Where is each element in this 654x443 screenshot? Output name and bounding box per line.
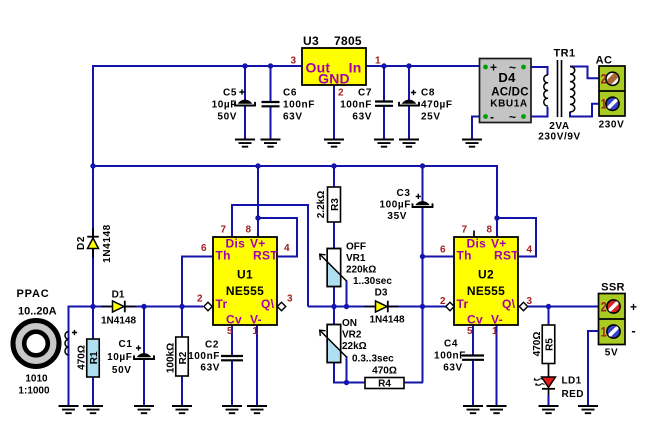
- screw terminal SSR 1: [607, 325, 620, 338]
- resistor R2 100k: [176, 337, 189, 376]
- resistor R5 470R: [542, 325, 555, 364]
- capacitor C8 470uF electrolytic: [402, 100, 417, 104]
- svg-text:U3: U3: [303, 34, 319, 48]
- svg-text:1: 1: [253, 326, 259, 337]
- pin - of D4: [483, 114, 488, 119]
- junction VR2 wiper / R4: [344, 380, 349, 385]
- svg-text:100nF: 100nF: [188, 351, 220, 362]
- svg-text:3: 3: [527, 296, 533, 307]
- svg-text:ON: ON: [342, 318, 357, 329]
- svg-text:1: 1: [601, 96, 607, 112]
- svg-text:AC: AC: [596, 54, 613, 66]
- svg-text:VR2: VR2: [342, 329, 362, 340]
- svg-text:8: 8: [486, 225, 492, 236]
- svg-text:-: -: [631, 323, 635, 338]
- svg-text:6: 6: [440, 244, 446, 255]
- svg-text:C3: C3: [397, 188, 411, 199]
- svg-text:470Ω: 470Ω: [77, 345, 88, 370]
- ground below LED: [539, 406, 559, 413]
- junction U2 ThTr column / trigger wire: [420, 304, 425, 309]
- junction bus / U1 V+ column: [255, 163, 260, 168]
- capacitor C6 100nF: [262, 102, 280, 106]
- svg-text:KBU1A: KBU1A: [490, 99, 527, 110]
- wire +5V rail top-left from corner to U3 Out: [93, 65, 302, 67]
- screw terminal SSR 2: [607, 300, 620, 313]
- svg-text:10µF: 10µF: [107, 352, 132, 363]
- wire C5 drop from +5V: [244, 66, 246, 100]
- svg-text:2: 2: [338, 87, 344, 98]
- light arrows of LED: [535, 379, 545, 386]
- svg-text:5V: 5V: [605, 348, 618, 359]
- inverting pin circle U2 Q: [519, 302, 527, 310]
- svg-text:GND: GND: [318, 70, 350, 86]
- svg-text:25V: 25V: [421, 111, 441, 122]
- svg-text:100nF: 100nF: [340, 99, 372, 110]
- LED LD1 RED: [542, 377, 556, 388]
- svg-text:230V/9V: 230V/9V: [538, 132, 581, 143]
- svg-text:50V: 50V: [217, 111, 237, 122]
- wire C8 drop: [408, 66, 410, 140]
- svg-text:470µF: 470µF: [421, 99, 453, 110]
- transformer TR1 primary coil 230V: [570, 66, 575, 112]
- svg-text:4: 4: [527, 244, 533, 255]
- pin ~ top of D4: [521, 65, 526, 70]
- potentiometer VR2 22k ON: [327, 325, 341, 363]
- junction trigger line / C1: [141, 304, 146, 309]
- svg-text:1010: 1010: [25, 373, 48, 384]
- screw terminal AC 2: [605, 72, 619, 86]
- wire transformer secondary top to bridge: [530, 67, 548, 75]
- wire coil branch down to ground: [68, 306, 70, 407]
- ground below SSR terminal 1: [578, 406, 598, 413]
- capacitor C3 100uF electrolytic: [415, 201, 430, 205]
- svg-text:NE555: NE555: [226, 284, 264, 298]
- svg-text:Th: Th: [457, 249, 472, 263]
- svg-text:5: 5: [467, 326, 473, 337]
- junction bus / left rail: [90, 163, 95, 168]
- junction U1 V+ node: [255, 215, 260, 220]
- junction bus / C3: [420, 163, 425, 168]
- junction trigger line / R2 and Th: [179, 304, 184, 309]
- svg-text:6: 6: [201, 243, 207, 254]
- resistor R3 2.2k: [328, 187, 341, 222]
- diode D1 1N4148: [102, 306, 136, 308]
- svg-text:V-: V-: [491, 313, 503, 327]
- junction U2 V+ node: [494, 215, 499, 220]
- wire main +5V bus y=166: [93, 165, 497, 167]
- svg-text:RED: RED: [562, 389, 584, 400]
- capacitor C2 100nF: [221, 356, 243, 360]
- svg-text:D3: D3: [375, 287, 388, 298]
- ground below U3 GND pin: [324, 140, 344, 147]
- svg-text:3: 3: [290, 56, 296, 67]
- svg-text:2: 2: [440, 296, 446, 307]
- timer U2 NE555: [454, 237, 518, 325]
- wire C5 to ground: [244, 107, 246, 141]
- svg-text:D2: D2: [76, 236, 87, 250]
- svg-text:63V: 63V: [200, 363, 220, 374]
- svg-text:0.3..3sec: 0.3..3sec: [352, 354, 394, 365]
- svg-text:Tr: Tr: [216, 297, 228, 311]
- capacitor C7 100nF: [375, 102, 393, 106]
- wire U2 Q out to SSR terminal 2: [526, 306, 599, 308]
- svg-text:AC/DC: AC/DC: [491, 86, 528, 98]
- svg-text:2: 2: [601, 71, 607, 87]
- wire R5 to LED: [548, 364, 550, 378]
- svg-text:R3: R3: [330, 198, 341, 211]
- svg-text:1N4148: 1N4148: [101, 316, 136, 327]
- bridge rectifier D4 KBU1A: [480, 59, 532, 123]
- wire U1 V- to ground: [256, 325, 258, 406]
- svg-text:1..30sec: 1..30sec: [353, 276, 392, 287]
- svg-text:63V: 63V: [443, 362, 463, 373]
- inverting pin circle U1 Tr: [204, 302, 212, 310]
- junction +5V / C5: [242, 63, 247, 68]
- svg-text:C4: C4: [444, 338, 458, 349]
- inverting pin circle U2 Tr: [446, 302, 454, 310]
- wire transformer primary bottom to AC terminal 1: [570, 104, 599, 117]
- inverting pin circle U1 Q: [277, 302, 285, 310]
- junction Q line / R5: [546, 304, 551, 309]
- svg-text:SSR: SSR: [601, 282, 625, 294]
- svg-text:U2: U2: [478, 268, 494, 282]
- svg-text:V-: V-: [250, 313, 262, 327]
- svg-text:D4: D4: [498, 70, 516, 85]
- svg-text:3: 3: [287, 294, 293, 305]
- svg-text:TR1: TR1: [554, 48, 576, 60]
- svg-text:63V: 63V: [352, 111, 372, 122]
- svg-text:100kΩ: 100kΩ: [166, 343, 177, 373]
- svg-text:VR1: VR1: [346, 253, 366, 264]
- svg-text:Q\: Q\: [261, 297, 275, 311]
- svg-text:8: 8: [245, 225, 251, 236]
- wire R2 column to ground: [181, 306, 183, 406]
- svg-text:C8: C8: [421, 87, 435, 98]
- svg-text:7: 7: [220, 225, 226, 236]
- diode D3 1N4148: [365, 306, 399, 308]
- svg-text:1: 1: [375, 56, 381, 67]
- wire U2 Cv through C4 to ground: [472, 323, 474, 406]
- svg-text:+: +: [490, 61, 497, 75]
- svg-text:2.2kΩ: 2.2kΩ: [316, 191, 327, 218]
- ground below C4: [463, 406, 483, 413]
- svg-text:1:1000: 1:1000: [18, 385, 50, 396]
- svg-text:220kΩ: 220kΩ: [346, 265, 376, 276]
- wire U1 V+ drop from bus: [257, 166, 259, 237]
- svg-text:7: 7: [461, 225, 467, 236]
- wire U3 In to bridge D4 +: [366, 65, 480, 67]
- wire SSR terminal 1 to ground: [588, 331, 599, 406]
- wire U2 V- to ground: [496, 323, 498, 406]
- svg-text:RST: RST: [494, 249, 519, 263]
- ground below bridge D4: [462, 140, 482, 147]
- wire U2 V+ drop from bus: [496, 165, 498, 237]
- svg-text:~: ~: [509, 110, 516, 124]
- timer U1 NE555: [213, 237, 277, 325]
- pin + of D4: [483, 65, 488, 70]
- svg-text:2: 2: [601, 299, 607, 315]
- svg-text:Cv: Cv: [226, 313, 242, 327]
- junction +5V / C6: [268, 63, 273, 68]
- ground below pickup coil: [59, 406, 79, 413]
- capacitor C1 10uF electrolytic: [137, 353, 152, 357]
- transformer TR1 secondary coil 9V: [544, 75, 548, 106]
- junction U2 ThTr column / Th: [420, 254, 425, 259]
- wire U3 GND down: [333, 85, 335, 140]
- ground below R1: [83, 406, 103, 413]
- svg-text:5: 5: [227, 326, 233, 337]
- resistor R1 470R: [87, 339, 100, 377]
- wire trigger line left segment: coil corner to U1 Tr: [69, 306, 204, 308]
- svg-text:7805: 7805: [334, 34, 362, 48]
- wire R3-VR1-VR2 column: [333, 166, 335, 325]
- svg-text:OFF: OFF: [346, 242, 366, 253]
- junction trigger line / left rail: [90, 304, 95, 309]
- svg-text:230V: 230V: [599, 120, 625, 131]
- ground below C5: [235, 140, 255, 147]
- svg-text:LD1: LD1: [562, 375, 582, 386]
- wire U2 RST loop from V+ junction: [497, 218, 536, 257]
- ground below C6: [261, 140, 281, 147]
- ground below U2 V-: [487, 406, 507, 413]
- svg-text:C7: C7: [358, 87, 372, 98]
- svg-text:2: 2: [197, 294, 203, 305]
- svg-text:PPAC: PPAC: [17, 288, 50, 300]
- svg-text:1N4148: 1N4148: [369, 315, 404, 326]
- svg-text:+: +: [630, 300, 637, 314]
- svg-text:10..20A: 10..20A: [18, 306, 57, 318]
- wire VR1 wiper drop: [346, 281, 348, 308]
- capacitor C5 10uF electrolytic: [238, 100, 253, 104]
- ground below C1: [134, 406, 154, 413]
- svg-text:1: 1: [601, 324, 607, 340]
- ground below C8: [399, 140, 419, 147]
- potentiometer VR1 220k OFF: [327, 249, 341, 287]
- svg-text:100nF: 100nF: [434, 350, 466, 361]
- pickup coil of PPAC: [65, 332, 69, 355]
- svg-text:Th: Th: [216, 249, 231, 263]
- svg-text:50V: 50V: [112, 365, 132, 376]
- junction timing node / VR1 bottom VR2 top: [331, 304, 336, 309]
- svg-text:100µF: 100µF: [379, 200, 411, 211]
- wire VR2 wiper drop: [346, 356, 348, 383]
- wire R1 column to ground: [92, 306, 94, 406]
- ground below C2: [222, 406, 242, 413]
- wire R4 bottom run: [334, 363, 423, 383]
- pin ~ bottom of D4: [521, 114, 526, 119]
- svg-text:R5: R5: [544, 338, 555, 351]
- wire U2 Th from column to box: [423, 256, 456, 258]
- svg-text:4: 4: [284, 243, 290, 254]
- svg-text:RST: RST: [253, 249, 278, 263]
- svg-text:R1: R1: [89, 351, 100, 364]
- wire U1 RST loop: [258, 218, 297, 257]
- diode D2 1N4148: [92, 228, 94, 258]
- ground below R2: [172, 406, 192, 413]
- svg-text:NE555: NE555: [467, 284, 505, 298]
- polarity plus of pickup coil: [72, 330, 77, 335]
- ground below U1 V-: [247, 406, 267, 413]
- svg-text:1N4148: 1N4148: [102, 224, 113, 263]
- transformer TR1 core: [558, 60, 562, 117]
- svg-text:C6: C6: [283, 87, 297, 98]
- svg-text:470Ω: 470Ω: [532, 332, 543, 357]
- svg-text:35V: 35V: [387, 211, 407, 222]
- svg-text:D1: D1: [112, 289, 125, 300]
- svg-text:Cv: Cv: [467, 313, 483, 327]
- wire C6 drop: [270, 66, 272, 140]
- svg-text:1: 1: [492, 326, 498, 337]
- junction bus / R3: [331, 163, 336, 168]
- svg-text:22kΩ: 22kΩ: [342, 341, 367, 352]
- svg-text:R4: R4: [378, 379, 391, 390]
- wire transformer secondary bottom to bridge: [530, 107, 548, 117]
- junction timing node / VR1 wiper: [344, 304, 349, 309]
- wire timing node horizontal to U2 Tr through D3: [308, 306, 446, 308]
- wire transformer primary top to AC terminal 2: [570, 67, 599, 79]
- svg-text:470Ω: 470Ω: [372, 366, 397, 377]
- wire C1 down to ground: [143, 306, 145, 406]
- wire C3 / U2 ThTr column x=422.5: [422, 166, 424, 383]
- svg-text:100nF: 100nF: [283, 99, 315, 110]
- wire R5 drop: [548, 306, 550, 325]
- wire C7 drop: [383, 66, 385, 140]
- terminal block AC 230V: [599, 66, 625, 116]
- resistor R4 470R horizontal: [365, 378, 404, 389]
- svg-text:C5: C5: [223, 87, 237, 98]
- screw terminal AC 1: [606, 97, 619, 110]
- svg-text:Q\: Q\: [502, 297, 516, 311]
- wire U1 Cv through C2 to ground: [231, 325, 233, 406]
- wire U1 Th left and down to node: [182, 257, 213, 307]
- capacitor C4 100nF: [462, 356, 484, 360]
- wire bridge minus to ground: [472, 117, 480, 141]
- svg-text:Tr: Tr: [457, 297, 469, 311]
- ground below C7: [374, 140, 394, 147]
- svg-text:U1: U1: [237, 268, 253, 282]
- terminal block SSR 5V: [599, 294, 626, 345]
- svg-text:In: In: [349, 59, 362, 75]
- wire U1 Dis up-over-down to timing node: [232, 205, 308, 307]
- svg-text:C1: C1: [119, 339, 133, 350]
- current transformer PPAC toroid: [13, 321, 59, 367]
- voltage regulator U3 7805: [302, 48, 366, 85]
- svg-text:10µF: 10µF: [212, 99, 237, 110]
- wire LED cathode to ground: [548, 389, 550, 396]
- svg-text:C2: C2: [205, 340, 219, 351]
- junction In rail / C8: [406, 63, 411, 68]
- pin 7 stub U2 Dis: [473, 231, 475, 238]
- svg-text:63V: 63V: [283, 111, 303, 122]
- wire left vertical rail x=93 from +5V corner down to trigger line: [92, 65, 94, 307]
- junction In rail / C7: [381, 63, 386, 68]
- svg-text:-: -: [490, 110, 494, 124]
- svg-text:2VA: 2VA: [549, 121, 570, 132]
